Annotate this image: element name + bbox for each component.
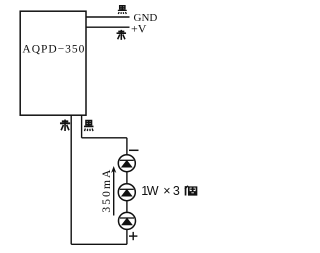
wire W1 black output (top, to GND) bbox=[86, 16, 130, 18]
wire W6 between LED1 and LED2 bbox=[126, 172, 128, 185]
svg-text:+V: +V bbox=[131, 22, 147, 36]
kanji label pcs (counter) in 1W x 3 bbox=[185, 186, 197, 196]
LED D2 bbox=[118, 184, 135, 201]
wire W4 horizontal to LED string top bbox=[82, 137, 127, 139]
kanji label black (top wire) bbox=[118, 6, 127, 14]
wire W10 red lead up to box bottom bbox=[70, 115, 72, 244]
driver module box AQPD-350 bbox=[20, 11, 86, 115]
kanji label black (box bottom right lead) bbox=[84, 121, 93, 131]
svg-text:AQPD−350: AQPD−350 bbox=[22, 44, 85, 56]
wire W3 black lead down from box bottom bbox=[81, 115, 83, 138]
LED D3 bbox=[119, 212, 136, 229]
wire W2 red output (to +V) bbox=[86, 26, 130, 28]
svg-text:×: × bbox=[163, 184, 170, 198]
LED D1 bbox=[118, 155, 135, 172]
wire W7 between LED2 and LED3 bbox=[126, 201, 128, 213]
wire W5 LED string top vertical bbox=[126, 138, 128, 155]
polarity label minus (top of LED string) bbox=[129, 149, 139, 151]
current direction arrow 350mA bbox=[111, 166, 116, 216]
kanji label red (box bottom left lead) bbox=[60, 120, 70, 132]
svg-text:W: W bbox=[147, 184, 159, 198]
wire W8 LED string bottom vertical bbox=[126, 229, 128, 244]
wire W9 bottom horizontal return bbox=[71, 243, 127, 245]
kanji label red (below +V wire) bbox=[117, 30, 127, 40]
svg-text:350mA: 350mA bbox=[101, 168, 113, 213]
polarity label plus (bottom of LED string) bbox=[129, 232, 137, 240]
svg-text:3: 3 bbox=[173, 184, 180, 198]
